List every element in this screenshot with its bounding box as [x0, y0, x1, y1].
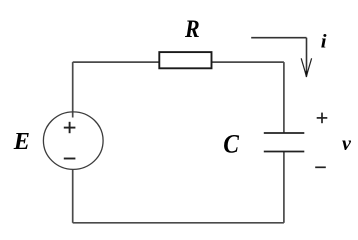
svg-text:E: E: [13, 129, 30, 155]
source plus sign: [64, 122, 76, 133]
polarity minus sign: [315, 166, 326, 168]
current arrowhead: [301, 58, 311, 77]
capacitor C bottom plate: [264, 151, 305, 153]
wire right vertical upper (corner to capacitor): [283, 62, 285, 133]
wire bottom horizontal: [73, 222, 284, 224]
current arrow vertical segment: [306, 38, 308, 74]
wire right vertical lower (capacitor to bottom corner): [283, 152, 285, 223]
wire top-left horizontal (node to resistor): [73, 61, 159, 63]
polarity plus sign: [317, 113, 328, 124]
wire left vertical lower (source to bottom corner): [72, 169, 74, 223]
svg-text:R: R: [184, 16, 200, 44]
wire left vertical upper (corner to source): [72, 62, 74, 117]
current arrow horizontal segment: [251, 37, 306, 39]
capacitor C top plate: [264, 132, 305, 134]
wire top-right horizontal (resistor to right corner): [212, 61, 284, 63]
svg-text:v: v: [342, 133, 352, 155]
voltage source E (circle): [43, 112, 103, 170]
resistor R (box): [159, 52, 211, 68]
svg-text:i: i: [321, 31, 328, 52]
source minus sign: [64, 158, 76, 160]
svg-text:C: C: [223, 130, 239, 159]
